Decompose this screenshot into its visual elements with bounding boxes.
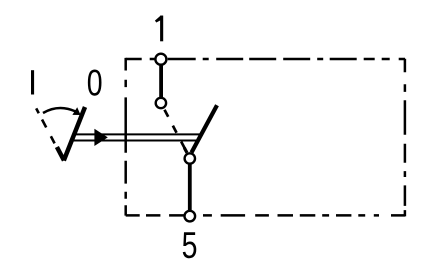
fixed contact circle (to terminal 1) [156,98,166,108]
terminal circle 5 [185,211,196,222]
actuator foot [57,147,64,161]
wire terminal 1 to fixed contact [159,62,163,100]
svg-text:0: 0 [87,63,103,105]
moving contact lever [192,105,218,152]
right edge [404,59,407,217]
dashed contact travel path [165,110,187,153]
arc arrowhead [72,107,80,115]
top edge [126,58,405,61]
linkage double line [73,133,203,135]
svg-text:5: 5 [182,226,198,268]
actuation direction arc [43,108,76,113]
label 0 (position 0) [87,63,103,105]
contact travel path end stub [184,148,187,153]
left edge [124,58,127,216]
actuator dashed arm (position I) [36,108,56,146]
terminal circle 1 [155,54,166,65]
actuator lever (position 0) [64,107,85,161]
label I (position I) [31,70,34,94]
linkage arrowhead [94,129,107,146]
wire pivot to terminal 5 [188,163,192,213]
label 5 [182,226,198,268]
label 1 [155,16,163,42]
enclosure dash-dot boundary box [126,58,405,217]
bottom edge [126,214,405,217]
pivot contact circle [185,153,195,163]
